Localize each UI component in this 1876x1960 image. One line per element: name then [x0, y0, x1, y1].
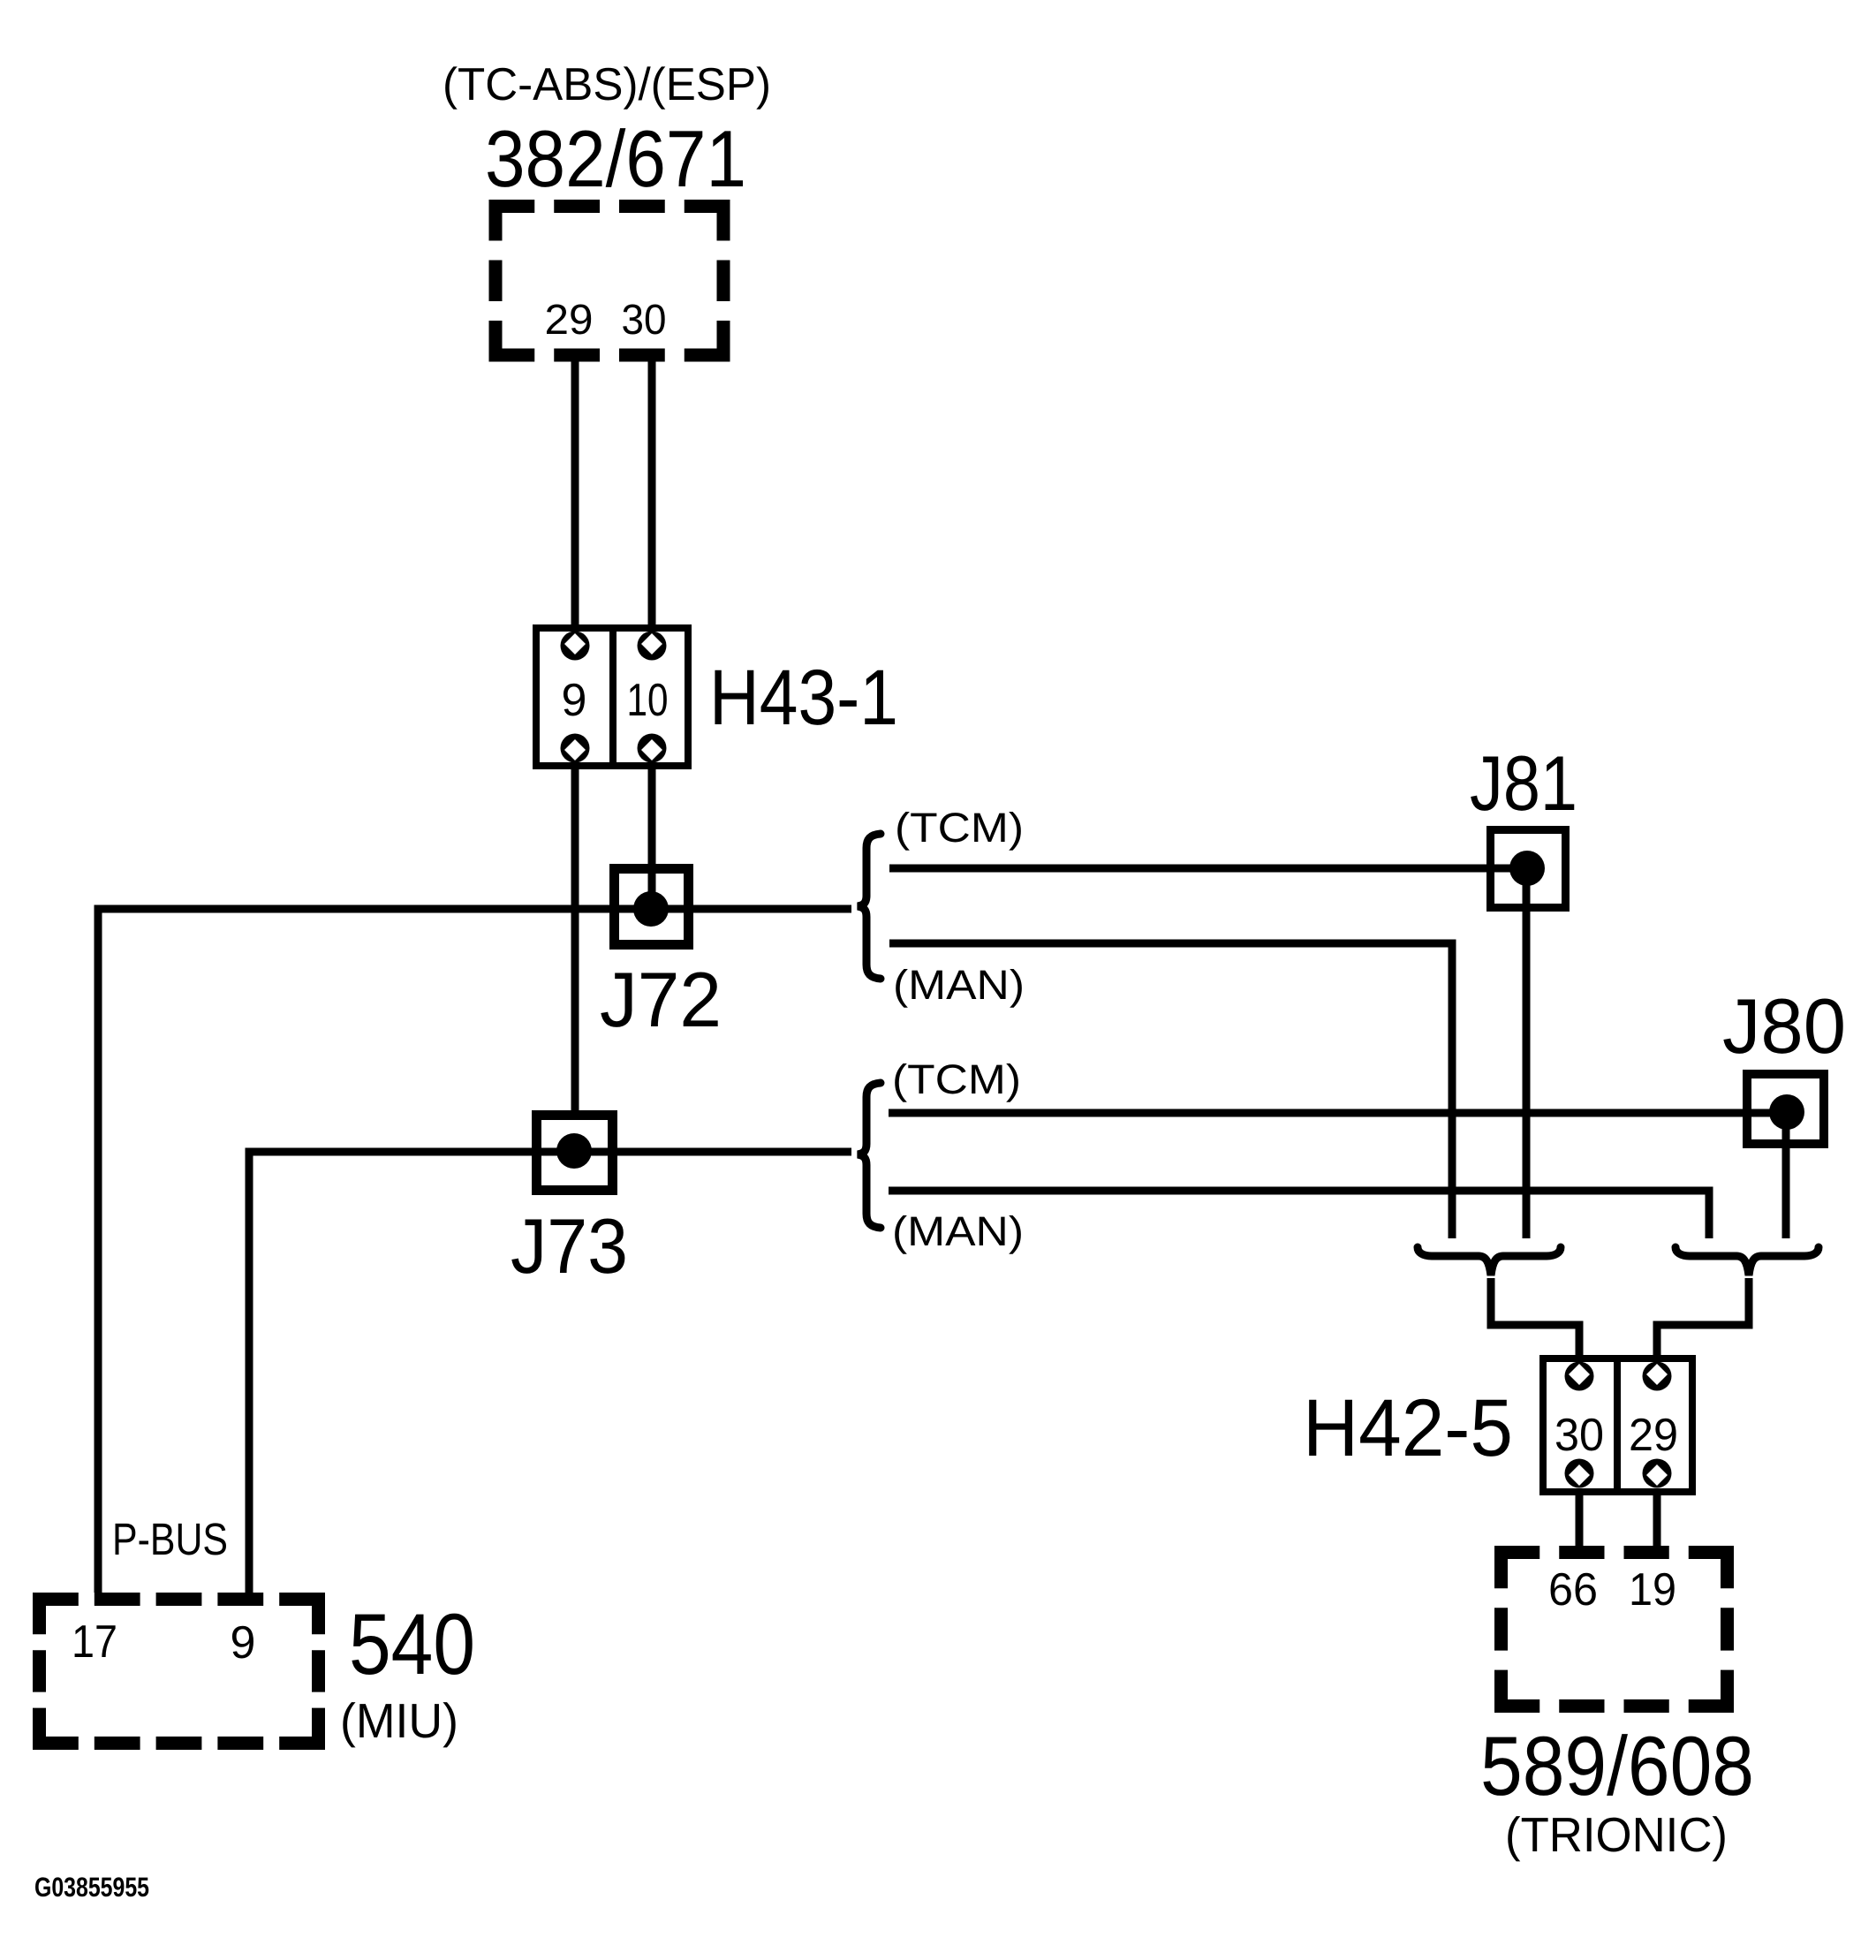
svg-text:H43-1: H43-1 [709, 653, 898, 741]
svg-text:66: 66 [1548, 1564, 1598, 1616]
H42-5 pin terminal top-right [1643, 1362, 1672, 1391]
junction J81 box [1491, 830, 1566, 908]
svg-text:19: 19 [1629, 1564, 1676, 1616]
wire pin30 to H43-1 pin10 [648, 361, 656, 632]
junction J73 dot [556, 1133, 592, 1169]
wire J80 down [1782, 1112, 1790, 1238]
connector H43-1 body [536, 628, 688, 766]
svg-text:9: 9 [562, 675, 587, 726]
svg-text:29: 29 [1629, 1410, 1678, 1461]
junction J80 dot [1769, 1094, 1804, 1130]
wire TCM2 to J80 [889, 1109, 1787, 1117]
underbrace right [1676, 1247, 1819, 1275]
svg-text:17: 17 [72, 1616, 117, 1668]
svg-text:589/608: 589/608 [1480, 1720, 1754, 1813]
wire H42-5 pin30 down [1576, 1488, 1584, 1548]
wire J81 down [1523, 868, 1531, 1238]
svg-text:G03855955: G03855955 [34, 1872, 149, 1903]
svg-text:(TCM): (TCM) [895, 804, 1024, 851]
junction J72 box [615, 869, 689, 945]
svg-text:J73: J73 [511, 1202, 628, 1290]
svg-text:(MAN): (MAN) [893, 961, 1025, 1008]
wire MAN1 right then down [889, 943, 1452, 1238]
underbrace left [1418, 1247, 1561, 1275]
wire from J73 left then down to 540 pin9 [249, 1152, 851, 1593]
H43-1 pin terminal top-right [638, 632, 667, 661]
svg-text:30: 30 [1555, 1410, 1604, 1461]
module 382/671 dashed box [489, 200, 730, 362]
svg-text:9: 9 [231, 1617, 256, 1669]
svg-text:(TC-ABS)/(ESP): (TC-ABS)/(ESP) [443, 59, 771, 110]
svg-text:(MIU): (MIU) [340, 1693, 458, 1748]
svg-text:J72: J72 [600, 956, 722, 1043]
junction J73 box [537, 1116, 613, 1191]
junction J80 box [1747, 1074, 1824, 1144]
svg-text:J81: J81 [1470, 739, 1577, 827]
wire long horizontal from J72 left then down to 540 pin17 [98, 909, 851, 1593]
H43-1 pin terminal bottom-left [561, 734, 590, 763]
H43-1 pin terminal top-left [561, 632, 590, 661]
wire MAN2 right then down [889, 1191, 1709, 1238]
svg-text:30: 30 [622, 297, 667, 344]
module 589/608 dashed box [1494, 1546, 1734, 1713]
H42-5 pin terminal bottom-right [1643, 1459, 1672, 1488]
wire H43-1 pin9 down to J73 [571, 762, 579, 1115]
svg-text:382/671: 382/671 [485, 115, 746, 204]
svg-text:(TRIONIC): (TRIONIC) [1505, 1807, 1728, 1862]
H43-1 pin terminal bottom-right [638, 734, 667, 763]
module 540 dashed box [33, 1593, 325, 1750]
wire TCM1 to J81 [889, 865, 1527, 873]
junction J72 dot [633, 891, 669, 927]
H42-5 pin terminal bottom-left [1565, 1459, 1594, 1488]
svg-text:540: 540 [349, 1595, 475, 1692]
svg-text:29: 29 [545, 297, 594, 344]
svg-text:10: 10 [627, 675, 669, 726]
H42-5 pin terminal top-left [1565, 1362, 1594, 1391]
svg-text:P-BUS: P-BUS [112, 1514, 228, 1564]
brace group 1 [858, 834, 881, 979]
connector H42-5 body [1543, 1358, 1692, 1492]
wire H43-1 pin10 down to J72 [648, 762, 656, 909]
brace group 2 [858, 1083, 881, 1228]
wire pin29 to H43-1 pin9 [571, 361, 579, 632]
svg-text:H42-5: H42-5 [1303, 1383, 1513, 1473]
wire right brace tip to H42-5 pin29 [1657, 1278, 1749, 1362]
junction J81 dot [1509, 851, 1545, 886]
svg-text:(TCM): (TCM) [892, 1056, 1021, 1102]
svg-text:(MAN): (MAN) [892, 1207, 1024, 1254]
wire left brace tip to H42-5 pin30 [1491, 1278, 1579, 1362]
svg-text:J80: J80 [1722, 982, 1846, 1070]
wire H42-5 pin29 down [1653, 1488, 1661, 1548]
